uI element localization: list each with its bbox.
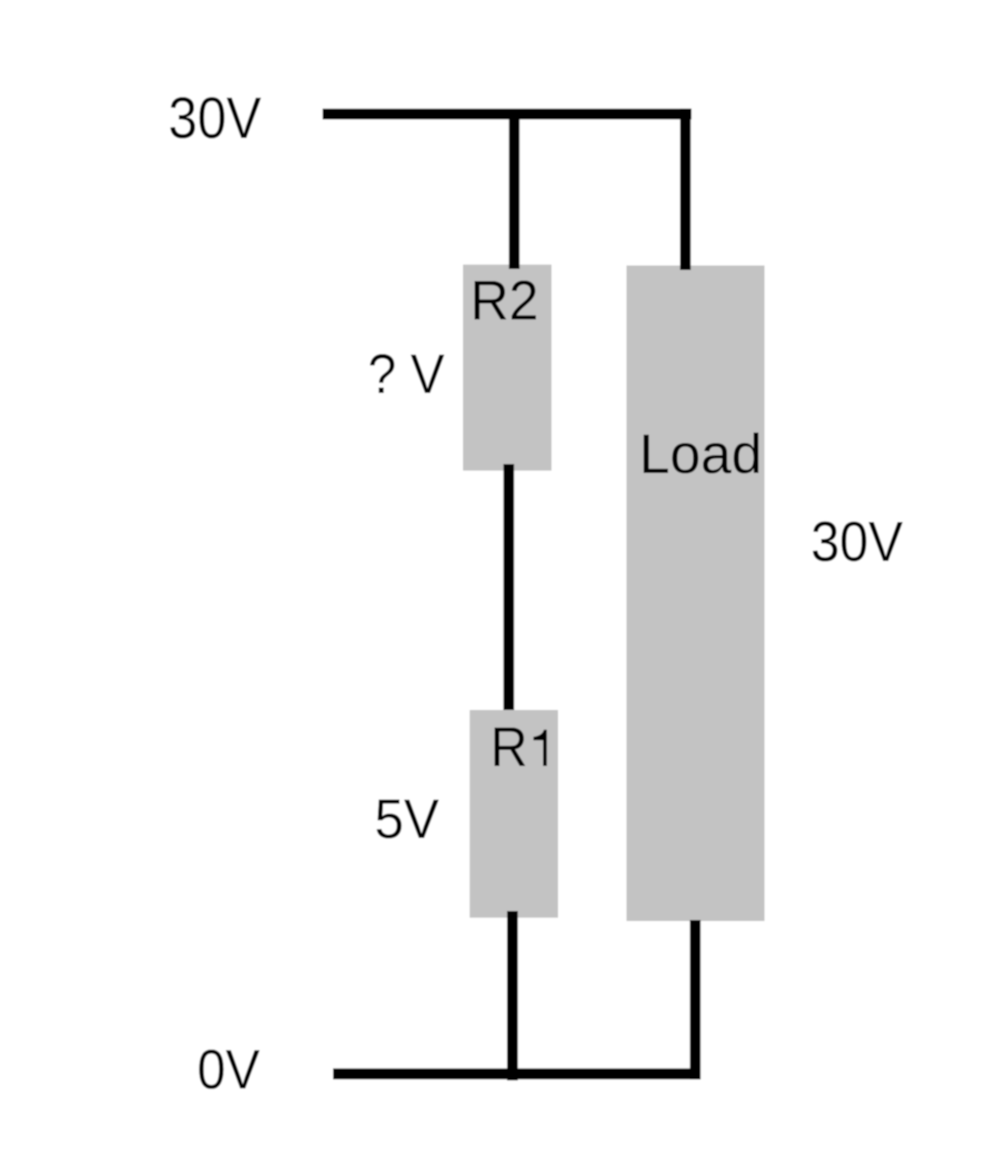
svg-text:5V: 5V (375, 787, 440, 850)
svg-text:30V: 30V (811, 510, 903, 574)
svg-text:0V: 0V (197, 1038, 260, 1101)
svg-text:? V: ? V (368, 342, 445, 405)
svg-text:R: R (490, 715, 528, 778)
svg-text:30V: 30V (168, 86, 261, 151)
svg-text:Load: Load (639, 422, 762, 485)
svg-text:R2: R2 (470, 269, 538, 332)
